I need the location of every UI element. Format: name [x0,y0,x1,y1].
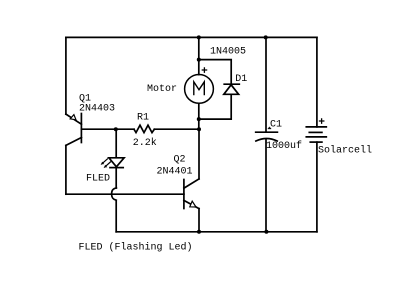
node motor top [197,35,201,39]
wire bottom rail [116,231,317,233]
svg-text:Motor: Motor [147,84,177,95]
svg-text:FLED: FLED [86,174,110,185]
svg-text:C1: C1 [270,120,282,131]
svg-text:Q2: Q2 [174,155,186,166]
wire Q1 collector down [65,145,67,194]
wire motor plus node to circle [198,60,200,75]
wire solarcell top [316,37,318,127]
svg-text:1000uf: 1000uf [266,140,302,152]
node R1 right [197,127,201,131]
svg-text:Solarcell: Solarcell [318,145,372,157]
wire C1 top [265,37,267,131]
capacitor C1 [256,127,278,141]
wire top rail [66,36,317,38]
wire left emitter [65,37,67,114]
node Q2 emitter rail [197,230,201,234]
motor circle [185,75,214,104]
svg-text:FLED (Flashing Led): FLED (Flashing Led) [79,242,193,254]
svg-text:D1: D1 [235,74,247,85]
svg-text:1N4005: 1N4005 [210,47,246,58]
svg-text:2N4401: 2N4401 [157,167,193,178]
transistor Q1 [66,114,82,146]
wire R1 right [154,128,199,130]
node motor plus [197,58,201,62]
wire solarcell bottom [316,142,318,232]
wire D1 bottom [199,94,231,119]
node C1 top [264,35,268,39]
wire hop over base row [112,188,117,200]
wire FLED to rail [115,200,117,232]
svg-text:2.2k: 2.2k [133,137,157,149]
node FLED tap [114,127,118,131]
svg-text:R1: R1 [137,113,149,124]
diode D1 [224,84,240,94]
wire FLED top [115,129,117,158]
node C1 bottom [264,230,268,234]
wire FLED bottom [115,168,117,188]
transistor Q2 [184,179,199,209]
wire D1 top [199,60,231,85]
wire motor bottom [198,103,200,119]
resistor R1 [134,125,154,132]
plus sign motor [202,68,206,72]
node motor bottom [197,117,201,121]
LED FLED [101,158,125,168]
plus sign solarcell [320,119,324,123]
wire Q2 emitter down [198,209,200,232]
motor M glyph [194,82,205,95]
battery solarcell [306,127,326,142]
wire Q2 base row [66,193,184,195]
wire Q1 base to R1 [81,128,134,130]
svg-text:2N4403: 2N4403 [79,104,115,115]
wire motor node down [198,119,200,129]
wire node to Q2 collector [198,129,200,179]
wire motor top [198,37,200,59]
wire C1 bottom [265,139,267,232]
